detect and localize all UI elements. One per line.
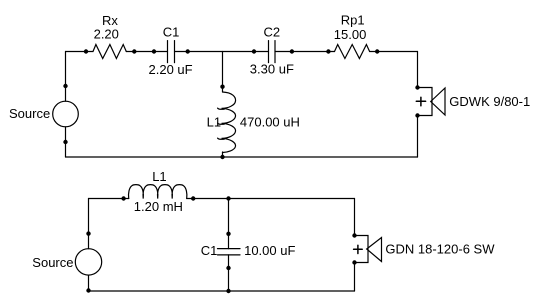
wire left rail lower circuit 2 (88, 275, 90, 291)
svg-text:C1: C1 (163, 25, 180, 40)
capacitor C1 plates circuit 2 (218, 248, 241, 250)
resistor Rp1 (335, 45, 370, 59)
speaker LS2 cone (367, 238, 382, 262)
capacitor C1 plates (167, 41, 169, 63)
node dot circuit1 left of C2 (252, 49, 256, 53)
svg-text:C1: C1 (201, 243, 218, 258)
wire C2 to Rp1 (275, 51, 335, 53)
inductor L1 horizontal coil (128, 185, 186, 199)
inductor L1 vertical coil hook 2 (218, 123, 225, 124)
source V1 circle (53, 101, 79, 127)
speaker LS2 body (355, 236, 369, 263)
svg-text:15.00: 15.00 (334, 27, 367, 42)
svg-text:Source: Source (32, 255, 73, 270)
node dot circuit2 C1 bottom rail (226, 289, 230, 293)
wire bottom rail circuit 2 (89, 290, 355, 292)
svg-text:3.30 uF: 3.30 uF (250, 62, 294, 77)
wire top-left segment circuit 1 (66, 51, 94, 53)
node dot circuit2 C1 junction top (226, 196, 230, 200)
svg-text:2.20 uF: 2.20 uF (149, 62, 193, 77)
svg-text:Rp1: Rp1 (341, 13, 365, 28)
wire C1 to C2 (175, 51, 269, 53)
source V2 circle (75, 249, 101, 275)
speaker LS1 cone (431, 88, 445, 115)
resistor Rx (93, 45, 126, 59)
node dot circuit1 left of Rp1 (326, 49, 330, 53)
wire right rail lower circuit 1 (417, 116, 419, 158)
node dot circuit1 right of C2 (290, 49, 294, 53)
wire top-left segment circuit 2 (89, 198, 129, 200)
wire L1 to right corner circuit 2 (187, 198, 355, 200)
node dot circuit1 speaker top (415, 85, 419, 89)
speaker LS1 body (418, 88, 433, 116)
wire right rail lower circuit 2 (354, 263, 356, 292)
svg-text:470.00 uH: 470.00 uH (240, 115, 300, 130)
node dot circuit1 source top (63, 84, 67, 88)
svg-text:GDWK 9/80-1: GDWK 9/80-1 (449, 94, 530, 109)
inductor L1 vertical coil hook 3 (218, 138, 225, 139)
svg-text:GDN 18-120-6 SW: GDN 18-120-6 SW (385, 241, 495, 256)
wire L1 bottom stub (222, 152, 224, 157)
node dot circuit2 C1 bottom (226, 266, 230, 270)
speaker LS2 plus sign (354, 248, 363, 250)
node dot circuit1 L1 bottom (220, 155, 224, 159)
speaker LS1 plus sign (416, 100, 425, 102)
inductor L1 vertical coil hook 1 (218, 108, 225, 109)
node dot circuit1 right of C1 (186, 49, 190, 53)
wire right rail upper circuit 2 (354, 199, 356, 236)
wire Rp1 to right corner (370, 51, 418, 53)
wire C1 branch lower circuit 2 (228, 255, 230, 291)
node dot circuit1 source bottom (63, 140, 67, 144)
svg-text:1.20 mH: 1.20 mH (134, 199, 183, 214)
wire left rail upper circuit 2 (88, 199, 90, 249)
node dot circuit1 right of Rx (132, 49, 136, 53)
node dot circuit1 speaker bottom (415, 113, 419, 117)
svg-text:L1: L1 (207, 114, 221, 129)
node dot circuit2 source bottom (86, 288, 90, 292)
node dot circuit2 source top (86, 231, 90, 235)
node dot circuit2 right of L1 (191, 196, 195, 200)
wire C1 branch upper circuit 2 (228, 199, 230, 249)
wire resistor Rx to C1 (126, 51, 167, 53)
node dot circuit2 left of L1 (121, 196, 125, 200)
svg-text:2.20: 2.20 (94, 27, 119, 42)
node dot circuit2 speaker top (352, 233, 356, 237)
node dot circuit1 left of C1 (152, 49, 156, 53)
wire junction stub down to L1 (222, 52, 224, 93)
svg-text:Source: Source (9, 106, 50, 121)
node dot circuit2 C1 top (226, 232, 230, 236)
node dot circuit2 speaker bottom (352, 260, 356, 264)
svg-text:L1: L1 (152, 169, 166, 184)
capacitor C2 plates (268, 41, 270, 63)
inductor L1 vertical coil (222, 92, 236, 153)
wire left rail lower circuit 1 (65, 127, 67, 157)
wire bottom rail circuit 1 (66, 156, 418, 158)
svg-text:C2: C2 (264, 25, 281, 40)
svg-text:10.00 uF: 10.00 uF (244, 243, 295, 258)
node dot circuit1 L1 top (220, 85, 224, 89)
node dot circuit1 left of Rx (84, 49, 88, 53)
wire right rail upper circuit 1 (417, 52, 419, 88)
node dot circuit1 right of Rp1 (375, 49, 379, 53)
wire left rail upper circuit 1 (65, 52, 67, 102)
